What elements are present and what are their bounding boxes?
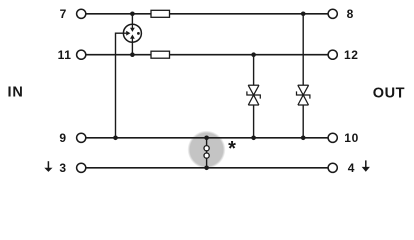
junction on wire 12 (TVS1): [251, 52, 256, 57]
svg-text:IN: IN: [8, 84, 24, 100]
svg-text:12: 12: [344, 48, 359, 62]
junction on wire 3-4 (disconnect): [204, 166, 209, 171]
svg-text:3: 3: [59, 161, 66, 175]
suppressor diode V1 (bidirectional): [247, 85, 260, 105]
ground symbol left: [44, 161, 52, 172]
wire: TVS1 bottom lead: [253, 105, 255, 138]
svg-text:*: *: [228, 138, 236, 160]
svg-text:7: 7: [60, 7, 67, 21]
svg-text:9: 9: [59, 131, 66, 145]
junction on wire 9 (GDT electrode): [113, 136, 118, 141]
wire: TVS2 bottom lead: [302, 105, 304, 138]
gray highlight circle: [188, 131, 226, 169]
junction on wire 8 (TVS2): [301, 12, 306, 17]
terminal 7: [77, 9, 86, 18]
suppressor diode V2 (bidirectional): [297, 85, 310, 105]
wire: GDT vertical from wire7 to wire11: [131, 14, 133, 55]
wire: GDT left electrode to wire 9: [116, 33, 124, 138]
wire: TVS2 top lead from wire 8: [302, 14, 304, 85]
terminal 12: [328, 50, 337, 59]
terminal 9: [77, 133, 86, 142]
resistor R2: [151, 51, 170, 58]
wire 9-10: [86, 137, 328, 139]
disconnect plug (test point): [204, 138, 209, 168]
svg-text:OUT: OUT: [373, 85, 405, 101]
resistor R1: [151, 10, 170, 17]
gas discharge tube F1: [123, 24, 141, 42]
terminal 10: [328, 133, 337, 142]
svg-text:11: 11: [58, 48, 72, 62]
wire 7-8: [86, 13, 328, 15]
svg-text:4: 4: [348, 161, 355, 175]
terminal 3: [77, 163, 86, 172]
terminal 4: [328, 163, 337, 172]
terminal 8: [328, 9, 337, 18]
wire: TVS1 top lead: [253, 55, 255, 85]
wire 11-12: [86, 54, 328, 56]
junction on wire 7: [130, 12, 135, 17]
junction on wire 11: [130, 52, 135, 57]
svg-text:10: 10: [344, 131, 359, 145]
wire 3-4: [86, 167, 328, 169]
junction on wire 9-10 (disconnect): [204, 136, 209, 141]
ground symbol right: [362, 160, 370, 171]
svg-text:8: 8: [347, 7, 354, 21]
terminal 11: [77, 50, 86, 59]
junction on wire 10 (TVS2): [301, 136, 306, 141]
junction on wire 10 (TVS1): [251, 136, 256, 141]
